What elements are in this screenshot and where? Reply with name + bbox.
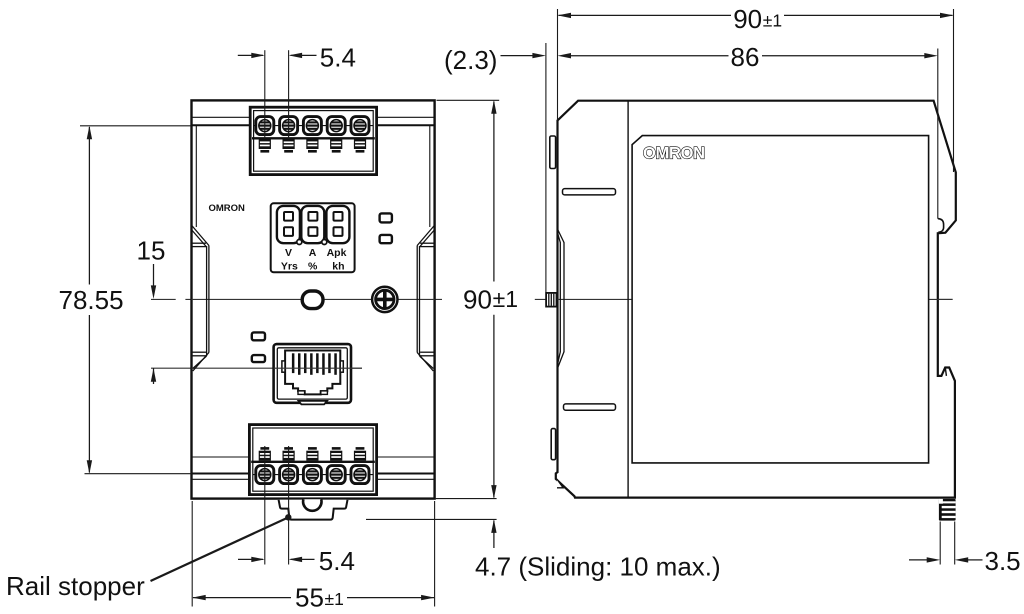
right DIN catch hook [938, 219, 944, 233]
rail stopper leader [151, 518, 288, 581]
svg-text:90: 90 [733, 4, 762, 34]
label plate [632, 136, 929, 463]
dim 2.3 leader [501, 55, 534, 57]
rail stopper leader dot [285, 514, 291, 520]
svg-text:86: 86 [731, 42, 760, 72]
bottom terminal block [249, 425, 376, 495]
svg-text:Rail stopper: Rail stopper [6, 571, 145, 601]
55±1 [192, 595, 206, 600]
svg-text:Apk: Apk [327, 247, 347, 259]
DIN slider screw nub [546, 293, 556, 307]
vent slot bottom [564, 404, 616, 410]
15mm reference line through RJ45 [151, 367, 362, 369]
digit 2 [301, 206, 324, 243]
3.5 [927, 557, 941, 562]
dim 78.55 lines [88, 127, 90, 285]
vent slot top [563, 189, 616, 195]
dim 90±1 top [559, 14, 732, 16]
dim 55±1 [191, 501, 193, 607]
cross-recess screw [372, 287, 397, 312]
front body outline [192, 100, 435, 498]
LED indicators right of display [380, 213, 392, 222]
top step line thick [192, 124, 435, 126]
svg-text:Yrs: Yrs [281, 261, 298, 273]
RJ45 housing [274, 344, 351, 403]
78.55 [87, 126, 92, 140]
dim 90±1 middle [493, 102, 495, 282]
5.4 top [251, 53, 264, 58]
RJ45 jack opening [285, 351, 340, 395]
dim 5.4 bottom [238, 558, 263, 560]
4.7 [491, 519, 496, 533]
svg-text:A: A [309, 247, 317, 259]
svg-text:%: % [308, 261, 318, 273]
oval hole [302, 291, 323, 309]
svg-text:4.7 (Sliding: 10 max.): 4.7 (Sliding: 10 max.) [475, 552, 721, 582]
rail tooth inner line [945, 368, 946, 376]
svg-text:15: 15 [137, 236, 166, 266]
rail stopper tab [279, 500, 348, 520]
bottom clamps [259, 447, 271, 461]
svg-text:78.55: 78.55 [59, 285, 124, 315]
5.4 bottom [251, 557, 264, 562]
svg-text:±1: ±1 [325, 589, 344, 609]
digit 3 [326, 206, 349, 243]
rail stopper semicircle notch [303, 499, 321, 511]
svg-text:OMRON: OMRON [209, 203, 246, 214]
centerline front (inside body) [192, 298, 435, 300]
right bezel groove [417, 226, 434, 371]
15mm reference line inside body [192, 367, 363, 369]
display bezel [271, 203, 355, 272]
86 [924, 53, 938, 58]
svg-text:90: 90 [463, 285, 492, 315]
svg-text:5.4: 5.4 [319, 546, 355, 576]
svg-text:V: V [285, 247, 292, 259]
dim 86 [570, 55, 729, 57]
dim 15 lines [153, 264, 155, 286]
bottom step line thin [192, 478, 435, 480]
centerline inside side body [558, 298, 953, 300]
LED indicators left of RJ45 [252, 332, 265, 340]
centerline front [151, 298, 176, 300]
RJ45 pins [292, 353, 337, 375]
top terminal block [250, 107, 376, 174]
left DIN clip bottom [551, 429, 555, 460]
front bezel line (side view) [627, 101, 629, 498]
shelf line bottom block [251, 461, 375, 463]
90±1 middle [491, 100, 496, 114]
digit 1 [277, 206, 300, 243]
svg-text:kh: kh [332, 261, 344, 273]
bottom step line thin upper [192, 456, 250, 458]
svg-text:OMRON: OMRON [643, 145, 705, 163]
RJ45 bottom tab [299, 401, 327, 405]
centerline side [535, 298, 953, 300]
svg-text:(2.3): (2.3) [444, 45, 497, 75]
decimal points [297, 240, 302, 245]
90±1 top [558, 13, 572, 18]
dim 3.5 [909, 559, 928, 561]
svg-text:±1: ±1 [493, 286, 518, 312]
right upper inner wall line [429, 125, 431, 227]
side body outline [556, 101, 956, 498]
15 [151, 285, 156, 299]
svg-text:±1: ±1 [763, 11, 782, 31]
top screws [256, 117, 274, 135]
bottom-left notch [557, 479, 563, 488]
screw row line top [254, 125, 374, 127]
left bezel groove [192, 226, 209, 371]
sliding rail stopper (side) [939, 499, 956, 521]
svg-text:55: 55 [295, 583, 324, 613]
svg-text:5.4: 5.4 [320, 43, 356, 73]
dim 4.7 [493, 521, 495, 549]
back rib [558, 230, 564, 368]
bottom step line thick [192, 473, 435, 475]
left upper inner wall line [195, 125, 197, 227]
dim 5.4 top lines [238, 54, 263, 56]
bottom screws [256, 466, 274, 484]
top step line thin [192, 116, 435, 118]
15mm reference line over RJ45 [274, 367, 362, 369]
top clamps [259, 139, 271, 153]
RJ45 clip slots [298, 391, 305, 395]
svg-text:3.5: 3.5 [985, 546, 1021, 576]
screw row line bottom [253, 474, 373, 476]
left DIN clip top [550, 136, 556, 169]
2.3 [532, 53, 546, 58]
RJ45 side latch slots [282, 361, 285, 372]
shelf line top block [252, 137, 375, 139]
